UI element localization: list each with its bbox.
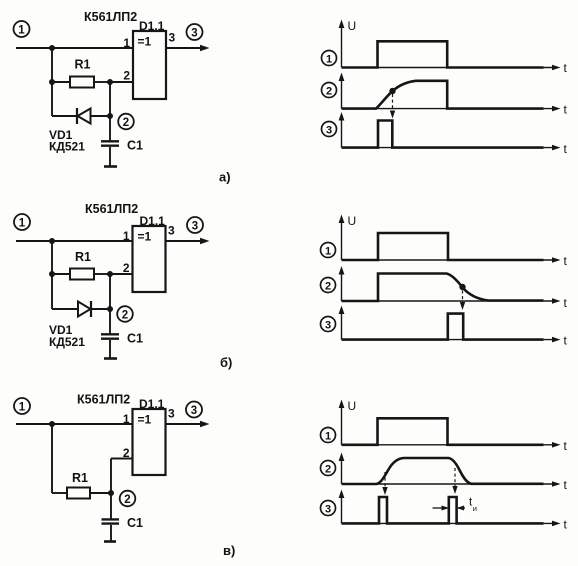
ordinate row3 (diag v) (341, 494, 343, 523)
svg-text:2: 2 (326, 85, 332, 97)
svg-text:2: 2 (325, 280, 331, 292)
svg-text:C1: C1 (127, 332, 143, 346)
gate D1.1 box (b) (133, 226, 166, 292)
t axis row1 arrowhead (diag b) (552, 257, 561, 263)
t axis row3 (diag a) (342, 147, 554, 149)
svg-text:К561ЛП2: К561ЛП2 (85, 202, 138, 216)
svg-text:3: 3 (168, 224, 175, 238)
wire: output (v) (166, 423, 202, 425)
waveform 2 exponential charge (diag a) (342, 81, 544, 109)
gate D1.1 box (a) (133, 31, 166, 99)
svg-text:R1: R1 (75, 58, 91, 72)
ordinate row2 arrowhead (diag v) (339, 453, 345, 462)
wire: diode row horizontal (b) (52, 308, 110, 310)
pulse width dimension left arrow (diag v) (433, 507, 448, 509)
t axis row3 arrowhead (diag a) (552, 145, 561, 151)
waveform 1 (diag v) (342, 418, 544, 445)
dashed marker arrowhead (diag b) (460, 302, 465, 310)
wire: left vertical (v) (51, 424, 53, 493)
waveform 1 (diag a) (342, 41, 544, 67)
svg-text:а): а) (219, 170, 231, 185)
wire: R1 left lead (a) (52, 81, 70, 83)
svg-text:2: 2 (325, 463, 331, 475)
output arrowhead (a) (200, 45, 210, 52)
junction on input wire (b) (49, 238, 55, 244)
svg-text:КД521: КД521 (49, 335, 85, 349)
svg-text:t: t (564, 296, 568, 310)
svg-text:C1: C1 (127, 516, 143, 530)
svg-text:1: 1 (18, 25, 25, 37)
ordinate row2 arrowhead (diag b) (339, 266, 345, 275)
dashed marker arrowhead (diag a) (390, 111, 395, 119)
svg-text:и: и (473, 504, 477, 513)
waveform 3 output pulse (diag a) (342, 121, 544, 148)
wire: input to pin 1 (a) (16, 47, 133, 49)
node 1 (b) (14, 214, 30, 230)
svg-text:t: t (564, 439, 568, 453)
t axis row2 (diag v) (342, 483, 554, 485)
wire: diode row horizontal (a) (52, 115, 110, 117)
waveform node marker 3 (diag a) (322, 122, 337, 137)
waveform 3 two output pulses (diag v) (342, 497, 544, 523)
waveform 1 (diag b) (342, 233, 544, 260)
svg-text:К561ЛП2: К561ЛП2 (84, 10, 137, 24)
svg-text:3: 3 (326, 124, 332, 136)
wire: to pin 2 (b) (110, 273, 133, 275)
svg-text:1: 1 (123, 412, 130, 426)
junction at R1 left (a) (49, 79, 55, 85)
svg-text:U: U (348, 19, 357, 33)
t axis row2 arrowhead (diag b) (552, 298, 561, 304)
svg-text:2: 2 (124, 494, 130, 506)
resistor R1 (a) (70, 77, 94, 88)
junction at diode row (b) (107, 306, 113, 312)
svg-text:1: 1 (19, 218, 26, 230)
wire: R1 left lead (b) (52, 273, 70, 275)
junction at R1 right (b) (107, 271, 113, 277)
t axis row2 (diag b) (342, 300, 554, 302)
svg-text:R1: R1 (75, 250, 91, 264)
node 3 (b) (187, 217, 203, 233)
svg-text:t: t (564, 254, 568, 268)
ground (v) (104, 540, 116, 543)
svg-text:б): б) (220, 355, 232, 370)
svg-text:t: t (564, 478, 568, 492)
svg-text:D1.1: D1.1 (140, 214, 166, 228)
svg-text:2: 2 (123, 69, 130, 83)
ordinate row2 arrowhead (diag a) (339, 73, 345, 82)
svg-text:3: 3 (168, 407, 175, 421)
wire: to pin 2 (v) (111, 458, 133, 460)
wire: input to pin 1 (v) (16, 423, 133, 425)
waveform node marker 1 (diag a) (322, 51, 337, 66)
dashed marker arrowhead 2 (diag v) (452, 486, 457, 494)
svg-text:К561ЛП2: К561ЛП2 (77, 393, 130, 407)
svg-text:1: 1 (19, 402, 26, 414)
t axis row2 arrowhead (diag v) (552, 481, 561, 487)
svg-text:2: 2 (123, 446, 130, 460)
ordinate row2 (diag a) (341, 77, 343, 109)
waveform 2 smooth pulse (diag v) (342, 458, 544, 484)
svg-text:U: U (348, 214, 357, 228)
dashed marker line 2 (diag v) (454, 468, 456, 489)
junction on input wire (v) (49, 421, 55, 427)
t axis row1 arrowhead (diag a) (552, 65, 561, 71)
junction at R1 right (v) (108, 490, 114, 496)
diode VD1 cathode bar (b) (90, 301, 92, 317)
ordinate row2 (diag b) (341, 271, 343, 302)
waveform node marker 2 (diag v) (321, 461, 336, 476)
svg-text:2: 2 (122, 310, 128, 322)
node 2 (a) (118, 114, 134, 130)
t axis row3 (diag v) (342, 522, 554, 524)
wire: left vertical (b) (51, 241, 53, 309)
t axis row1 arrowhead (diag v) (552, 442, 561, 448)
wire: vertical junction to pin2 level (v) (110, 459, 112, 520)
threshold dot on waveform 2 (diag a) (389, 88, 395, 94)
svg-text:1: 1 (325, 245, 331, 257)
node 1 (a) (14, 21, 30, 37)
axis U ordinate (diag v) (341, 404, 343, 445)
ground (a) (104, 165, 117, 168)
wire: output (a) (166, 47, 201, 49)
t axis row3 arrowhead (diag v) (552, 521, 561, 527)
junction on input wire (a) (49, 45, 55, 51)
t axis row3 arrowhead (diag b) (552, 337, 561, 343)
svg-text:t: t (564, 61, 568, 75)
svg-text:3: 3 (169, 31, 176, 45)
junction at R1 left (b) (49, 271, 55, 277)
svg-text:t: t (564, 334, 568, 348)
svg-text:t: t (564, 517, 568, 531)
ordinate row2 (diag v) (341, 457, 343, 484)
svg-text:1: 1 (326, 53, 332, 65)
wire: R1 right lead (v) (90, 492, 111, 494)
svg-text:D1.1: D1.1 (139, 397, 165, 411)
ordinate row3 arrowhead (diag a) (339, 112, 345, 121)
ordinate row3 (diag a) (341, 117, 343, 148)
wire: R1 left lead (v) (52, 492, 67, 494)
capacitor C1 (a) (101, 141, 119, 145)
wire: vertical from R1 right to diode row (b) (109, 274, 111, 334)
wire: R1 right lead (a) (94, 81, 110, 83)
junction at diode row (a) (107, 113, 113, 119)
resistor R1 (v) (67, 488, 90, 499)
axis U ordinate (diag b) (341, 219, 343, 260)
svg-text:3: 3 (325, 319, 331, 331)
svg-text:R1: R1 (72, 471, 88, 485)
svg-text:1: 1 (325, 430, 331, 442)
svg-text:D1.1: D1.1 (139, 19, 165, 33)
dashed marker line 1 (diag v) (384, 472, 386, 490)
wire: vertical from R1 right to diode row (a) (109, 82, 111, 141)
ordinate row3 (diag b) (341, 310, 343, 340)
waveform node marker 3 (diag b) (321, 317, 336, 332)
wire: C1 to ground (b) (109, 340, 111, 358)
wire: C1 to ground (a) (109, 147, 111, 166)
resistor R1 (b) (70, 269, 94, 280)
wire: left vertical (a) (51, 48, 53, 116)
node 2 (v) (120, 491, 136, 507)
diode VD1 triangle (b) (78, 302, 91, 317)
wire: C1 to ground (v) (110, 525, 112, 541)
svg-text:t: t (564, 142, 568, 156)
capacitor C1 (b) (101, 334, 119, 338)
axis U arrowhead (diag b) (339, 215, 345, 224)
waveform node marker 2 (diag b) (321, 278, 336, 293)
waveform node marker 1 (diag v) (321, 428, 336, 443)
waveform node marker 3 (diag v) (321, 501, 336, 516)
capacitor C1 (v) (102, 519, 120, 523)
svg-text:3: 3 (191, 405, 197, 417)
ordinate row3 arrowhead (diag b) (339, 306, 345, 315)
svg-text:3: 3 (191, 28, 197, 40)
wire: input to pin 1 (b) (16, 240, 133, 242)
junction at R1 right (a) (107, 79, 113, 85)
node 2 (b) (117, 306, 133, 322)
waveform 2 exponential discharge (diag b) (342, 274, 544, 302)
node 3 (a) (187, 24, 203, 40)
svg-text:U: U (348, 399, 357, 413)
svg-text:2: 2 (123, 117, 129, 129)
svg-text:в): в) (223, 543, 235, 558)
t axis row1 (diag b) (342, 259, 554, 261)
output arrowhead (v) (200, 421, 210, 428)
t axis row1 (diag v) (342, 444, 554, 446)
pulse width dimension right arrow (diag v) (458, 507, 465, 509)
svg-text:3: 3 (325, 503, 331, 515)
svg-text:C1: C1 (127, 139, 143, 153)
svg-text:КД521: КД521 (49, 140, 85, 154)
t axis row3 (diag b) (342, 339, 554, 341)
waveform node marker 1 (diag b) (321, 243, 336, 258)
axis U arrowhead (diag v) (339, 400, 345, 409)
diode VD1 triangle (a) (78, 109, 91, 124)
svg-text:=1: =1 (138, 35, 152, 49)
wire: R1 right lead (b) (94, 273, 110, 275)
dashed marker line (diag a) (392, 94, 394, 113)
svg-text:1: 1 (123, 36, 130, 50)
svg-text:3: 3 (192, 221, 198, 233)
t axis row1 (diag a) (342, 67, 554, 69)
threshold dot on waveform 2 (diag b) (459, 284, 465, 290)
ground (b) (104, 357, 117, 360)
node 1 (v) (14, 398, 30, 414)
axis U arrowhead (diag a) (339, 20, 345, 29)
dashed marker line (diag b) (462, 291, 464, 305)
axis U ordinate (diag a) (341, 24, 343, 68)
wire: to pin 2 (a) (110, 81, 133, 83)
t axis row2 arrowhead (diag a) (552, 106, 561, 112)
node 3 (v) (186, 402, 202, 418)
waveform 3 output pulse (diag b) (342, 314, 544, 340)
gate D1.1 box (v) (133, 409, 166, 475)
svg-text:1: 1 (123, 229, 130, 243)
svg-text:2: 2 (123, 261, 130, 275)
output arrowhead (b) (200, 238, 210, 245)
svg-text:t: t (564, 103, 568, 117)
svg-text:=1: =1 (138, 413, 152, 427)
waveform node marker 2 (diag a) (322, 83, 337, 98)
dashed marker arrowhead 1 (diag v) (382, 487, 387, 495)
wire: output (b) (166, 240, 202, 242)
t axis row2 (diag a) (342, 108, 554, 110)
diode VD1 cathode bar (a) (76, 108, 78, 124)
ordinate row3 arrowhead (diag v) (339, 490, 345, 499)
svg-text:=1: =1 (138, 230, 152, 244)
